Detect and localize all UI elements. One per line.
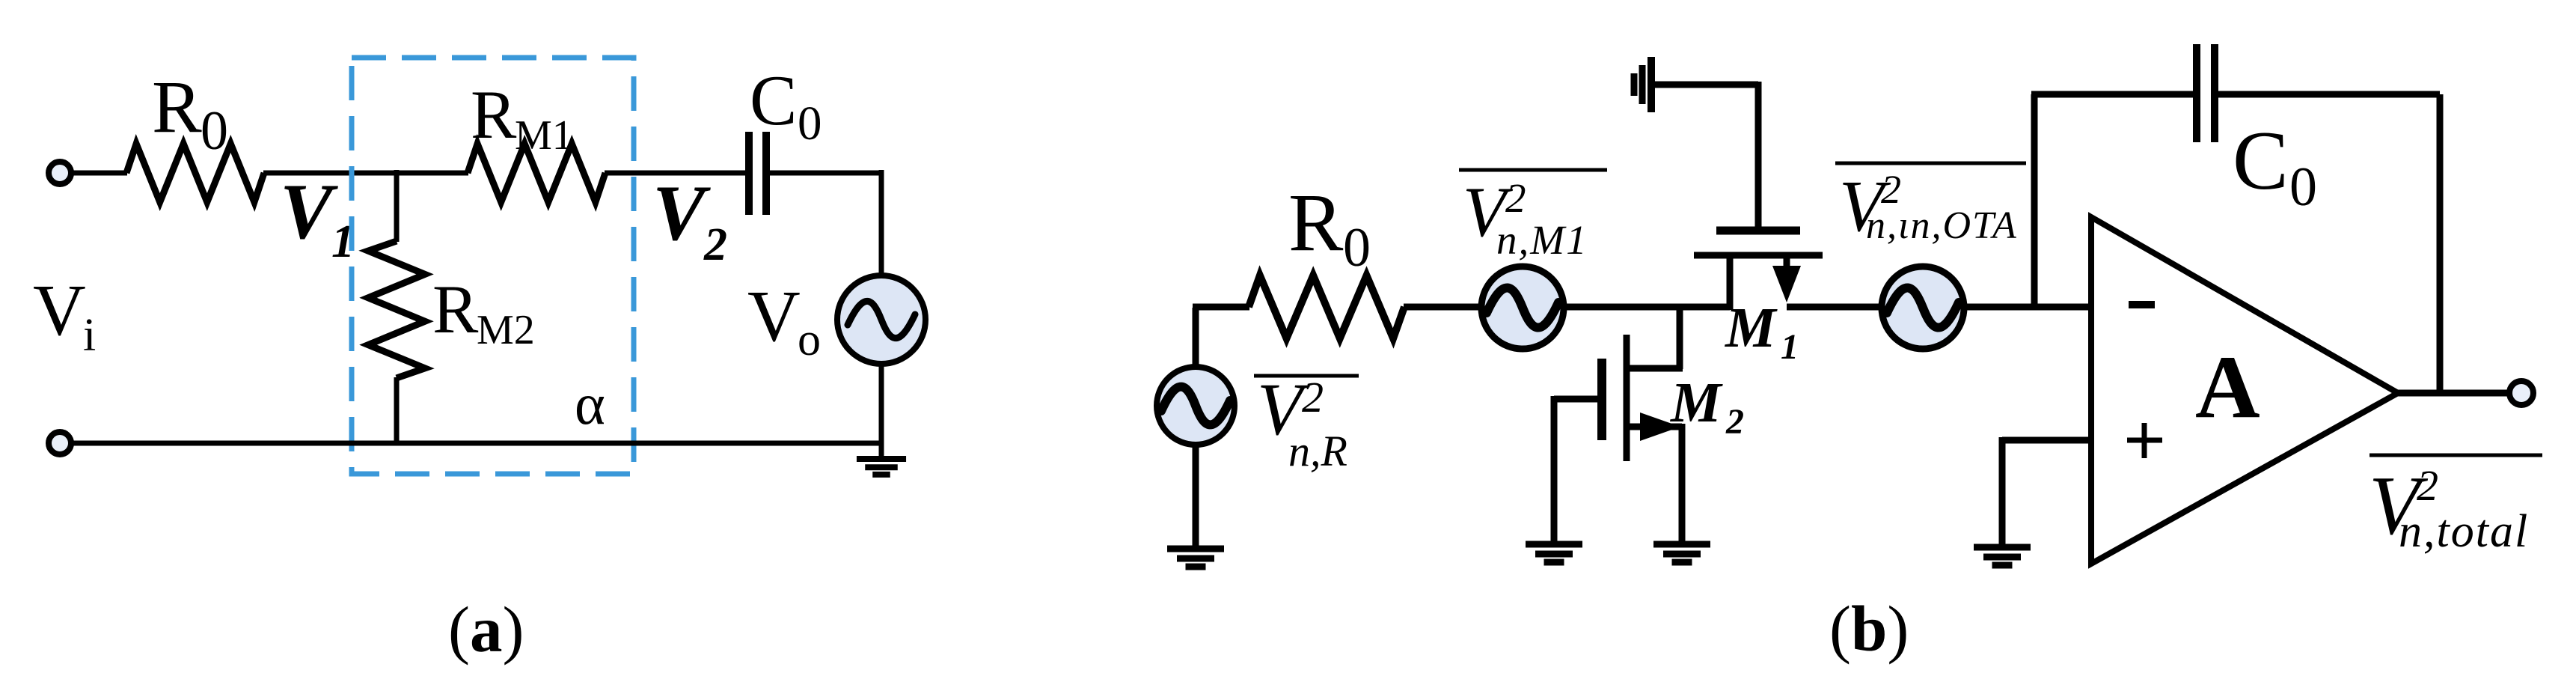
svg-text:o: o bbox=[798, 314, 821, 365]
wire plus input bbox=[2002, 437, 2091, 444]
minus input bbox=[2129, 301, 2155, 308]
svg-text:R: R bbox=[432, 271, 479, 347]
svg-text:A: A bbox=[2195, 337, 2260, 436]
svg-text:0: 0 bbox=[2289, 156, 2317, 218]
terminal input top bbox=[49, 162, 71, 184]
ground M2 gate bbox=[1526, 541, 1582, 548]
label Vn,in,OTA^2 bbox=[1835, 162, 2026, 165]
capacitor C0 bbox=[745, 132, 753, 215]
svg-text:V: V bbox=[652, 169, 711, 257]
resistor R0 bbox=[126, 144, 264, 202]
source Vo bbox=[837, 275, 926, 364]
svg-text:1: 1 bbox=[1781, 327, 1799, 367]
wire bbox=[1563, 304, 1730, 311]
svg-text:0: 0 bbox=[201, 100, 228, 162]
output wire bbox=[2396, 390, 2509, 397]
label Vn,M1^2 bbox=[1459, 168, 1607, 172]
wire bbox=[1404, 304, 1482, 311]
svg-text:V: V bbox=[747, 276, 801, 357]
svg-text:M: M bbox=[1670, 371, 1723, 434]
svg-text:R: R bbox=[471, 76, 517, 153]
svg-text:n,R: n,R bbox=[1288, 427, 1347, 475]
noise source Vn,M1 bbox=[1481, 267, 1564, 349]
wire down bbox=[879, 170, 884, 276]
transistor M1 bbox=[1716, 227, 1800, 235]
label Vn,R^2 bbox=[1254, 374, 1359, 378]
svg-text:R: R bbox=[1288, 177, 1344, 268]
wire bbox=[605, 171, 747, 176]
svg-text:M: M bbox=[1725, 296, 1778, 359]
plus input bbox=[2127, 438, 2162, 443]
svg-text:n,ιn,OTA: n,ιn,OTA bbox=[1866, 204, 2018, 247]
wire bbox=[770, 171, 881, 176]
svg-text:C: C bbox=[2233, 115, 2289, 207]
svg-text:V: V bbox=[33, 270, 86, 351]
wire bbox=[1193, 308, 1199, 368]
bottom wire bbox=[72, 441, 881, 446]
wire bbox=[71, 171, 127, 176]
svg-text:2: 2 bbox=[1725, 402, 1744, 442]
wire node V1 bbox=[263, 171, 468, 176]
svg-text:V: V bbox=[280, 168, 338, 255]
terminal input bottom bbox=[49, 432, 71, 454]
noise source Vn,R bbox=[1157, 367, 1235, 445]
ground M2 source bbox=[1653, 541, 1710, 548]
svg-text:2: 2 bbox=[1505, 175, 1526, 221]
transistor M2 bbox=[1677, 304, 1683, 369]
wire bbox=[1963, 304, 2091, 311]
svg-text:M2: M2 bbox=[477, 307, 535, 353]
dashed box alpha bbox=[352, 58, 634, 474]
svg-text:α: α bbox=[575, 371, 605, 436]
label Vn,total bbox=[2370, 454, 2542, 457]
svg-text:n,total: n,total bbox=[2399, 506, 2529, 557]
feedback wire right bbox=[2215, 91, 2440, 98]
ground top (M1 gate) bbox=[1648, 57, 1655, 112]
wire RM2 top bbox=[394, 170, 400, 242]
feedback wire left bbox=[2031, 94, 2038, 307]
svg-text:2: 2 bbox=[1302, 373, 1324, 421]
svg-text:R: R bbox=[152, 65, 202, 148]
svg-text:2: 2 bbox=[2417, 461, 2438, 510]
ground Vn,R bbox=[1193, 444, 1199, 549]
noise source Vn,in,OTA bbox=[1882, 267, 1964, 349]
svg-text:n,M1: n,M1 bbox=[1496, 217, 1588, 263]
svg-text:M1: M1 bbox=[515, 112, 573, 159]
svg-text:(a): (a) bbox=[448, 593, 524, 666]
svg-text:0: 0 bbox=[798, 97, 822, 150]
resistor RM2 bbox=[368, 241, 425, 378]
resistor RM1 bbox=[468, 144, 605, 202]
resistor R0 bbox=[1249, 275, 1404, 338]
svg-text:0: 0 bbox=[1343, 217, 1371, 278]
svg-text:2: 2 bbox=[703, 219, 727, 270]
wire RM2 bottom bbox=[394, 377, 400, 443]
capacitor C0 feedback bbox=[2193, 44, 2200, 142]
ground bbox=[857, 456, 906, 462]
wire gate bbox=[1653, 82, 1758, 88]
wire bbox=[1787, 304, 1882, 311]
terminal output bbox=[2509, 381, 2533, 405]
svg-text:(b): (b) bbox=[1829, 592, 1909, 665]
op-amp A bbox=[2091, 217, 2398, 564]
wire bbox=[879, 363, 884, 458]
svg-text:C: C bbox=[750, 61, 797, 140]
ground plus input bbox=[1974, 544, 2031, 551]
svg-text:i: i bbox=[83, 310, 96, 361]
